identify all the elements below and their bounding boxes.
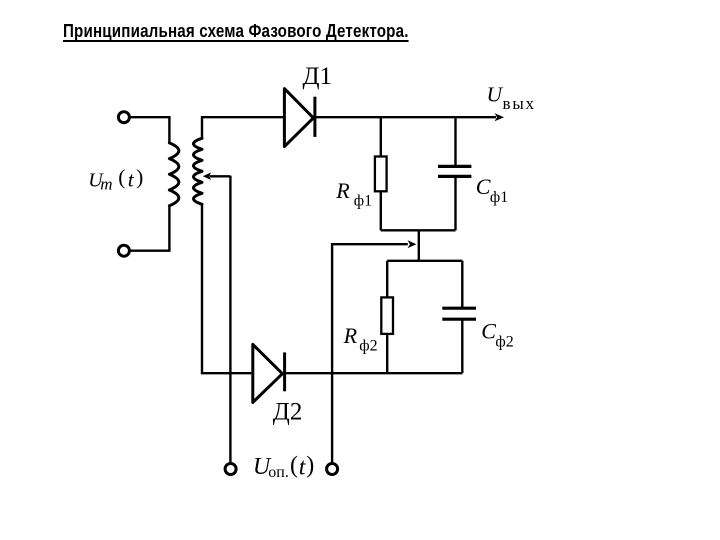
wire link between filters bbox=[418, 230, 420, 260]
svg-text:Д2: Д2 bbox=[273, 399, 303, 426]
resistor Rf1 bbox=[375, 157, 387, 192]
terminal input top bbox=[118, 112, 129, 123]
terminal reference right bbox=[327, 464, 338, 475]
wire Rf2 bottom lead bbox=[386, 334, 388, 373]
wire center tap to terminal bbox=[229, 176, 231, 463]
svg-text:ф2: ф2 bbox=[495, 333, 513, 350]
wire secondary bottom to D2 anode bbox=[202, 204, 251, 373]
svg-text:m: m bbox=[100, 174, 112, 193]
svg-text:Д1: Д1 bbox=[303, 63, 333, 90]
svg-text:R: R bbox=[335, 178, 350, 203]
svg-text:ф1: ф1 bbox=[354, 192, 372, 209]
wire Rf1 bottom lead bbox=[380, 191, 382, 230]
svg-text:U: U bbox=[487, 82, 504, 106]
transformer secondary winding L2 bbox=[194, 138, 203, 204]
svg-text:C: C bbox=[481, 318, 496, 343]
wire input top bbox=[130, 117, 170, 143]
wire filter2 bottom rail bbox=[285, 372, 463, 374]
svg-text:вых: вых bbox=[503, 94, 536, 113]
wire Cf2 top lead bbox=[461, 261, 463, 308]
wire Cf1 bottom lead bbox=[454, 176, 456, 230]
wire filter2 top rail bbox=[387, 260, 462, 262]
svg-text:ф1: ф1 bbox=[490, 189, 508, 206]
wire Rf2 top lead bbox=[386, 261, 388, 298]
svg-text:оп.: оп. bbox=[268, 464, 289, 481]
svg-text:C: C bbox=[476, 174, 491, 199]
svg-text:(t): (t) bbox=[118, 165, 146, 191]
wire Cf2 bottom lead bbox=[461, 319, 463, 373]
terminal reference left bbox=[225, 464, 236, 475]
resistor Rf2 bbox=[381, 297, 393, 334]
wire reference to filter junction bbox=[332, 244, 408, 463]
output arrow bbox=[495, 113, 504, 121]
svg-text:ф2: ф2 bbox=[359, 338, 377, 355]
transformer primary winding L1 bbox=[169, 143, 178, 206]
capacitor Cf1 bbox=[438, 166, 471, 176]
wire Rf1 top lead bbox=[380, 117, 382, 156]
capacitor Cf2 bbox=[442, 308, 476, 319]
transformer center tap arrow bbox=[203, 172, 211, 180]
terminal input bottom bbox=[118, 245, 129, 256]
svg-text:R: R bbox=[343, 323, 358, 348]
svg-text:(t): (t) bbox=[290, 452, 315, 480]
wire input bottom bbox=[130, 206, 170, 251]
diode D1 bbox=[284, 89, 315, 147]
title bbox=[63, 21, 409, 42]
wire Cf1 top lead bbox=[454, 117, 456, 166]
wire secondary top to D1 anode bbox=[202, 117, 283, 138]
wire D1 cathode to output bbox=[315, 116, 496, 118]
junction arrow bbox=[408, 240, 417, 248]
diode D2 bbox=[253, 344, 285, 402]
wire filter1 bottom rail bbox=[381, 229, 456, 231]
